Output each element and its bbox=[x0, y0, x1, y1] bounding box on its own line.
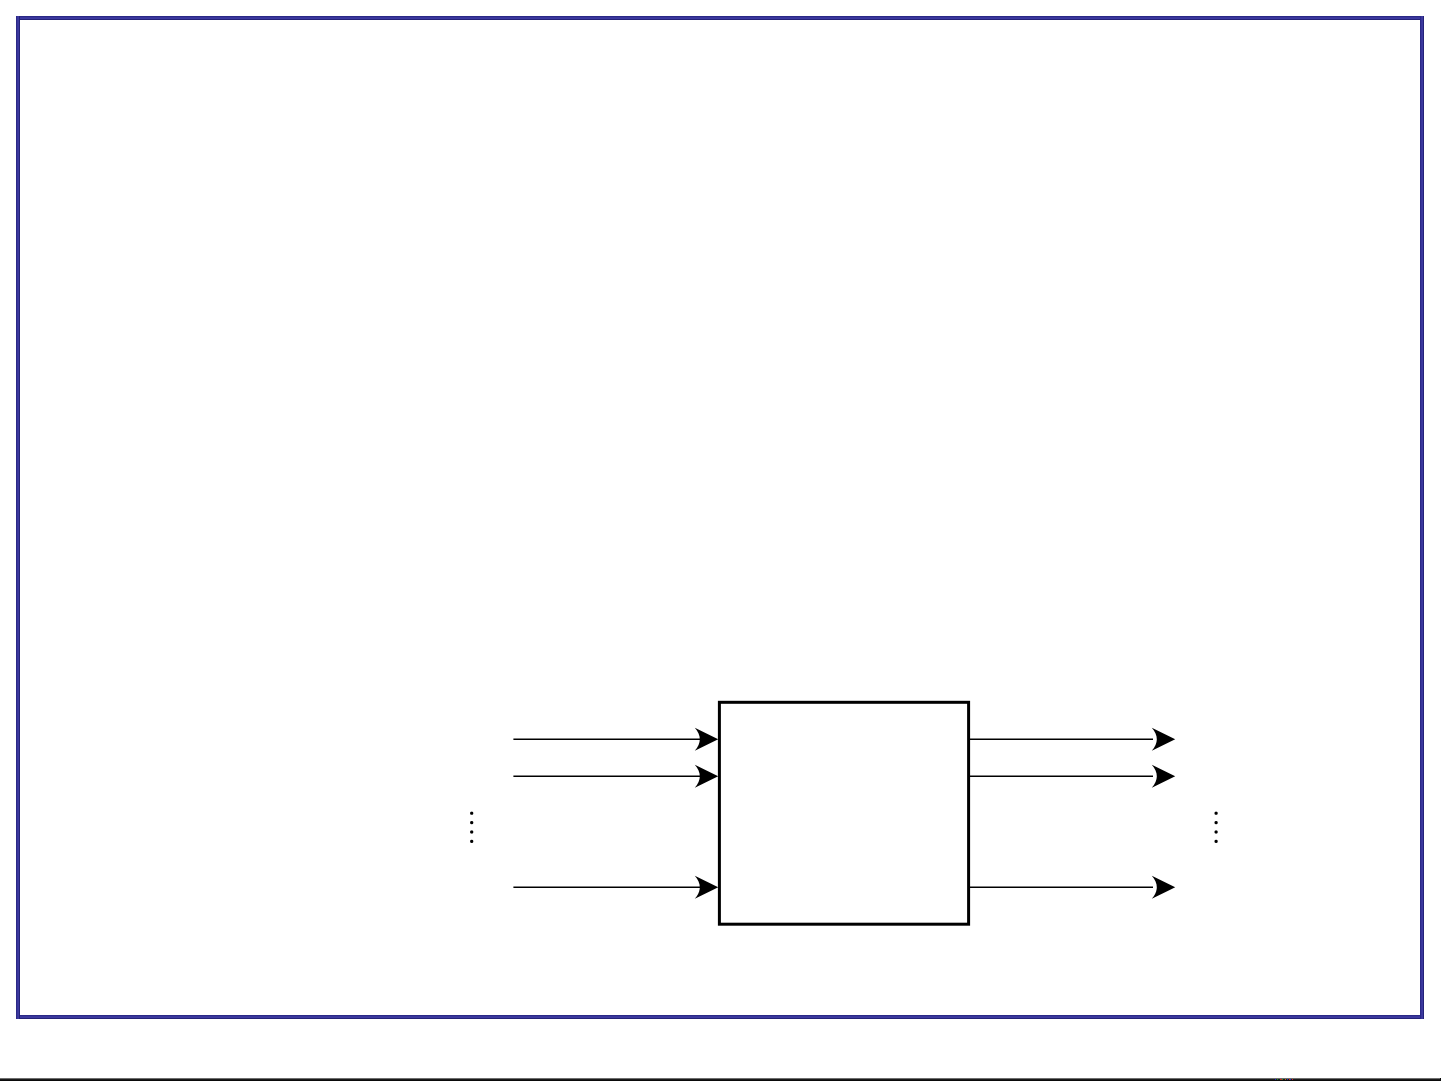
slide frame right edge bbox=[1420, 16, 1424, 1019]
output wire 1 bbox=[969, 738, 1153, 740]
input arrowhead 1 bbox=[695, 728, 718, 751]
right vdots bbox=[1215, 812, 1218, 843]
left vdots bbox=[470, 812, 473, 843]
output arrowhead n bbox=[1152, 876, 1175, 899]
input wire 2 bbox=[513, 775, 712, 777]
slide frame (blue double rule) top edge bbox=[16, 16, 1424, 20]
bottom window edge bar bbox=[0, 1078, 1441, 1081]
slide frame left edge bbox=[16, 16, 20, 1019]
output wire 2 bbox=[969, 775, 1153, 777]
slide frame bottom edge bbox=[16, 1015, 1424, 1019]
subpixel text specks on bottom bar bbox=[1275, 1079, 1276, 1080]
input wire n bbox=[513, 886, 712, 888]
bottom-right corner bump bbox=[1440, 1078, 1441, 1081]
input arrowhead 2 bbox=[695, 765, 718, 788]
input arrowhead n bbox=[695, 876, 718, 899]
output arrowhead 2 bbox=[1152, 765, 1175, 788]
system box bbox=[719, 702, 968, 924]
input wire 1 bbox=[513, 738, 712, 740]
output wire n bbox=[969, 886, 1153, 888]
output arrowhead 1 bbox=[1152, 728, 1175, 751]
